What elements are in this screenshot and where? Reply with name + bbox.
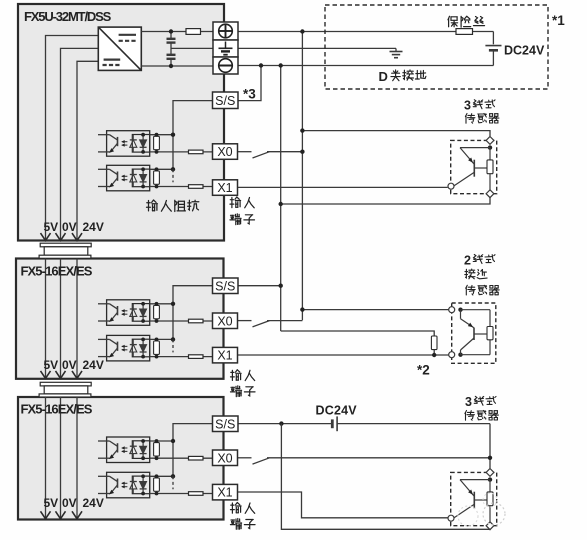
svg-text:*3: *3 — [243, 87, 256, 102]
svg-text:0V: 0V — [62, 496, 77, 510]
svg-text:FX5U-32MT/DSS: FX5U-32MT/DSS — [24, 9, 112, 24]
svg-text:X1: X1 — [217, 486, 232, 500]
svg-text:X0: X0 — [217, 451, 232, 465]
svg-text:DC24V: DC24V — [504, 43, 545, 57]
svg-text:X1: X1 — [217, 349, 232, 363]
svg-text:5V: 5V — [44, 220, 59, 234]
svg-text:3: 3 — [465, 395, 472, 409]
svg-text:X1: X1 — [217, 181, 232, 195]
svg-text:3: 3 — [464, 99, 471, 113]
svg-text:S/S: S/S — [215, 94, 235, 108]
svg-text:S/S: S/S — [215, 417, 235, 431]
svg-text:0V: 0V — [62, 358, 77, 372]
svg-text:DC24V: DC24V — [316, 404, 358, 418]
svg-text:24V: 24V — [83, 496, 104, 510]
svg-text:24V: 24V — [83, 220, 104, 234]
svg-text:*1: *1 — [552, 13, 565, 28]
svg-text:24V: 24V — [83, 358, 104, 372]
svg-text:X0: X0 — [217, 314, 232, 328]
svg-text:D: D — [379, 69, 388, 84]
svg-text:2: 2 — [464, 253, 471, 267]
svg-text:5V: 5V — [44, 496, 59, 510]
svg-text:FX5-16EX/ES: FX5-16EX/ES — [21, 402, 93, 417]
svg-text:X0: X0 — [217, 145, 232, 159]
svg-text:5V: 5V — [44, 358, 59, 372]
svg-text:*2: *2 — [417, 363, 430, 378]
svg-text:S/S: S/S — [215, 279, 235, 293]
svg-text:0V: 0V — [62, 220, 77, 234]
svg-text:FX5-16EX/ES: FX5-16EX/ES — [21, 264, 93, 279]
